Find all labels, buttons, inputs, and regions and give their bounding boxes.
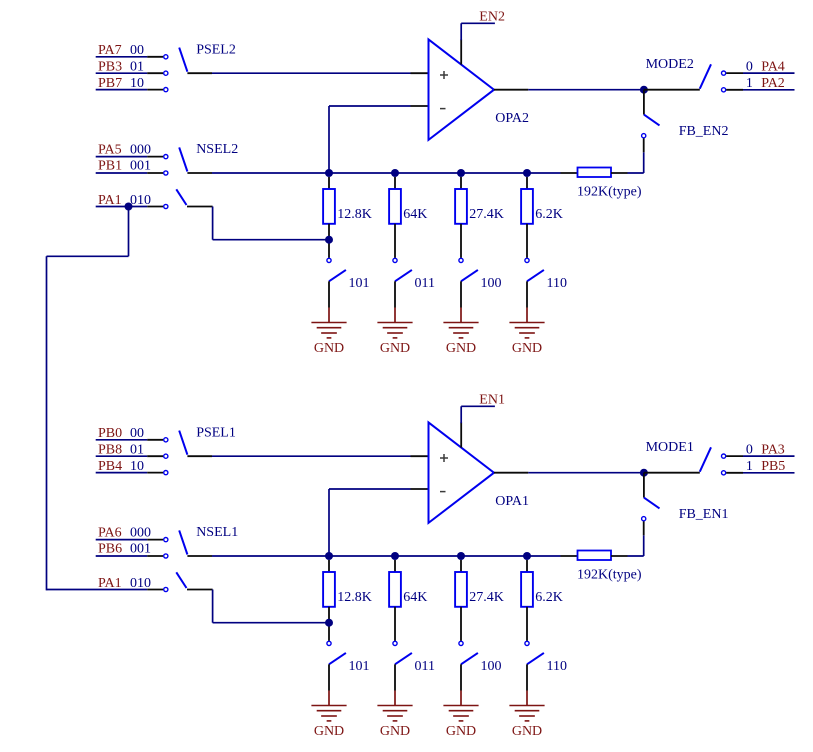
wire PA1 switch output to 12.8K bottom node [213, 590, 329, 623]
node bus junction x=395 [391, 552, 399, 560]
wire bus to op-amp - input [329, 489, 429, 556]
svg-text:OPA2: OPA2 [495, 111, 529, 126]
svg-text:101: 101 [349, 659, 370, 674]
svg-text:000: 000 [130, 525, 151, 540]
wire PSEL2 output to op-amp + input [212, 72, 429, 74]
wire / net label 1 PB5 output [722, 459, 795, 475]
node 12.8K bottom junction [325, 619, 333, 627]
svg-text:PB7: PB7 [98, 76, 122, 91]
svg-text:OPA1: OPA1 [495, 494, 529, 509]
switch 101 to ground [327, 641, 370, 690]
wire / net label PA5 000 (input 1 of NSEL2) [96, 142, 168, 158]
wire / net label PA7 00 (input 1 of PSEL2) [96, 43, 168, 59]
wire / net label PB1 001 (input 2 of NSEL2) [96, 159, 168, 175]
svg-text:PB0: PB0 [98, 426, 122, 441]
wire / net label PB4 10 (input 3 of PSEL1) [96, 459, 168, 475]
resistor R5 12.8K [323, 560, 372, 641]
wire bus to op-amp - input [329, 106, 429, 173]
wire PA1 switch output to 12.8K bottom node [213, 207, 329, 240]
resistor R1 12.8K [323, 177, 372, 258]
switch 011 to ground [393, 258, 435, 307]
wire PSEL1 output to op-amp + input [212, 455, 429, 457]
svg-text:PB4: PB4 [98, 459, 122, 474]
ground GND [311, 308, 346, 357]
node bus junction x=527 [523, 552, 531, 560]
svg-text:EN1: EN1 [479, 392, 505, 407]
svg-text:GND: GND [446, 724, 476, 739]
op-amp OPA1 [429, 422, 530, 523]
svg-text:NSEL1: NSEL1 [196, 525, 238, 540]
svg-text:FB_EN2: FB_EN2 [679, 124, 729, 139]
node 12.8K bottom junction [325, 236, 333, 244]
wire / net label 0 PA4 output [722, 60, 795, 76]
resistor R4 6.2K [521, 177, 563, 258]
resistor R3 27.4K [455, 177, 504, 258]
svg-text:PB8: PB8 [98, 443, 122, 458]
switch 100 to ground [459, 641, 502, 690]
svg-text:GND: GND [512, 341, 542, 356]
svg-text:6.2K: 6.2K [535, 207, 563, 222]
switch 110 to ground [525, 641, 567, 690]
svg-text:12.8K: 12.8K [337, 207, 372, 222]
svg-text:10: 10 [130, 76, 144, 91]
ground GND [377, 691, 412, 740]
svg-text:PB3: PB3 [98, 60, 122, 75]
svg-text:000: 000 [130, 142, 151, 157]
switch PA1 branch [176, 189, 212, 206]
switch 100 to ground [459, 258, 502, 307]
svg-text:27.4K: 27.4K [469, 590, 504, 605]
svg-text:110: 110 [547, 659, 567, 674]
svg-text:64K: 64K [403, 590, 427, 605]
ground GND [509, 308, 544, 357]
svg-text:001: 001 [130, 542, 151, 557]
svg-text:10: 10 [130, 459, 144, 474]
wire / net label PB6 001 (input 2 of NSEL1) [96, 542, 168, 558]
svg-text:00: 00 [130, 43, 144, 58]
wire / net label PB7 10 (input 3 of PSEL2) [96, 76, 168, 92]
wire / net label PB3 01 (input 2 of PSEL2) [96, 60, 168, 76]
svg-text:FB_EN1: FB_EN1 [679, 507, 729, 522]
wire 192K to FB switch contact [628, 138, 644, 173]
ground GND [443, 308, 478, 357]
resistor R6 64K [389, 560, 427, 641]
ground GND [311, 691, 346, 740]
wire 192K to FB switch contact [628, 521, 644, 556]
svg-text:GND: GND [314, 724, 344, 739]
wire / net label PB0 00 (input 1 of PSEL1) [96, 426, 168, 442]
switch NSEL2 [179, 142, 238, 173]
svg-text:GND: GND [380, 724, 410, 739]
switch NSEL1 [179, 525, 238, 556]
svg-text:PA1: PA1 [98, 193, 122, 208]
svg-text:01: 01 [130, 443, 144, 458]
wire / net label EN2 enable pin [461, 9, 505, 64]
node PA1 junction [125, 203, 133, 211]
svg-text:EN2: EN2 [479, 9, 505, 24]
svg-text:PSEL1: PSEL1 [196, 425, 236, 440]
svg-text:PB1: PB1 [98, 159, 122, 174]
node MODE2 junction [640, 86, 648, 94]
svg-text:GND: GND [512, 724, 542, 739]
svg-text:011: 011 [415, 276, 435, 291]
svg-text:100: 100 [481, 659, 502, 674]
svg-text:12.8K: 12.8K [337, 590, 372, 605]
switch 011 to ground [393, 641, 435, 690]
svg-text:01: 01 [130, 60, 144, 75]
resistor 192K(type) feedback OPA1 [561, 551, 642, 583]
svg-text:64K: 64K [403, 207, 427, 222]
op-amp OPA2 [429, 39, 530, 139]
svg-text:001: 001 [130, 159, 151, 174]
switch FB_EN2 [642, 90, 729, 139]
switch PSEL2 [179, 42, 236, 73]
wire feedback bus NSEL2 net [212, 172, 561, 174]
wire / net label 0 PA3 output [722, 443, 795, 459]
node bus junction x=527 [523, 169, 531, 177]
svg-text:00: 00 [130, 426, 144, 441]
resistor 192K(type) feedback OPA2 [561, 168, 642, 200]
svg-text:GND: GND [314, 341, 344, 356]
wire left rail PA1 top-to-bottom [47, 207, 129, 591]
svg-text:1: 1 [746, 76, 753, 91]
svg-text:PB5: PB5 [761, 459, 785, 474]
svg-text:PA1: PA1 [98, 576, 122, 591]
svg-text:PA4: PA4 [761, 60, 785, 75]
wire feedback bus NSEL1 net [212, 555, 561, 557]
svg-text:PSEL2: PSEL2 [196, 42, 236, 57]
svg-text:PA2: PA2 [761, 76, 785, 91]
svg-text:GND: GND [380, 341, 410, 356]
svg-text:010: 010 [130, 193, 151, 208]
resistor R8 6.2K [521, 560, 563, 641]
resistor R7 27.4K [455, 560, 504, 641]
wire op-amp output (MODE2 net) [494, 89, 644, 91]
svg-text:PB6: PB6 [98, 542, 122, 557]
wire / net label PA1 010 (input 3 of NSEL2) [96, 193, 168, 209]
wire / net label EN1 enable pin [461, 392, 505, 447]
svg-text:6.2K: 6.2K [535, 590, 563, 605]
svg-text:27.4K: 27.4K [469, 207, 504, 222]
wire / net label 1 PA2 output [722, 76, 795, 92]
svg-text:NSEL2: NSEL2 [196, 142, 238, 157]
ground GND [377, 308, 412, 357]
ground GND [443, 691, 478, 740]
svg-text:GND: GND [446, 341, 476, 356]
svg-text:PA5: PA5 [98, 142, 122, 157]
svg-text:100: 100 [481, 276, 502, 291]
wire / net label PA1 010 (input 3 of NSEL1) [47, 576, 168, 592]
wire / net label PA6 000 (input 1 of NSEL1) [96, 525, 168, 541]
switch PSEL1 [179, 425, 236, 456]
svg-text:010: 010 [130, 576, 151, 591]
node bus junction x=461 [457, 552, 465, 560]
wire / net label PB8 01 (input 2 of PSEL1) [96, 443, 168, 459]
node bus junction x=395 [391, 169, 399, 177]
svg-text:MODE2: MODE2 [646, 57, 694, 72]
switch PA1 branch [176, 572, 212, 589]
svg-text:MODE1: MODE1 [646, 440, 694, 455]
switch MODE1 [644, 440, 711, 473]
switch MODE2 [644, 57, 711, 90]
svg-text:PA6: PA6 [98, 525, 122, 540]
svg-text:0: 0 [746, 60, 753, 75]
svg-text:PA3: PA3 [761, 443, 785, 458]
svg-text:0: 0 [746, 443, 753, 458]
switch FB_EN1 [642, 473, 729, 522]
wire op-amp output (MODE1 net) [494, 472, 644, 474]
ground GND [509, 691, 544, 740]
svg-text:101: 101 [349, 276, 370, 291]
node bus junction x=461 [457, 169, 465, 177]
svg-text:110: 110 [547, 276, 567, 291]
node bus junction x=329 [325, 552, 333, 560]
switch 110 to ground [525, 258, 567, 307]
svg-text:011: 011 [415, 659, 435, 674]
resistor R2 64K [389, 177, 427, 258]
svg-text:1: 1 [746, 459, 753, 474]
svg-text:PA7: PA7 [98, 43, 122, 58]
node MODE1 junction [640, 469, 648, 477]
switch 101 to ground [327, 258, 370, 307]
svg-text:192K(type): 192K(type) [577, 567, 642, 582]
node bus junction x=329 [325, 169, 333, 177]
svg-text:192K(type): 192K(type) [577, 184, 642, 199]
